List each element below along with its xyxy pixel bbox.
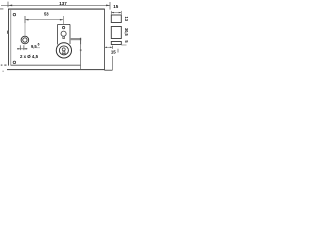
svg-text:15: 15 xyxy=(111,50,116,55)
svg-text:9,5: 9,5 xyxy=(31,44,37,49)
svg-text:137: 137 xyxy=(59,1,67,6)
svg-text:2 x Ø 4,5: 2 x Ø 4,5 xyxy=(20,54,39,59)
svg-text:6: 6 xyxy=(38,42,40,46)
svg-text:15: 15 xyxy=(113,4,119,9)
svg-text:30,5: 30,5 xyxy=(124,28,128,37)
svg-text:13: 13 xyxy=(124,17,128,22)
svg-text:53: 53 xyxy=(44,12,49,17)
